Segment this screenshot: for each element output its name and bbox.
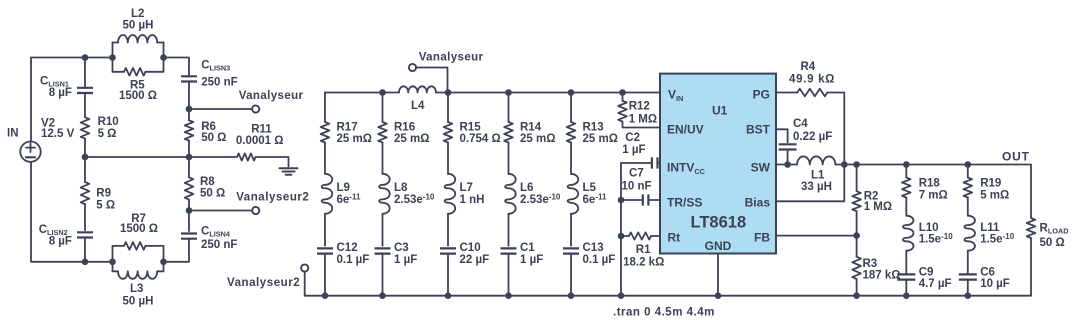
svg-text:250 nF: 250 nF [201, 239, 237, 251]
label R12 [629, 101, 657, 126]
svg-text:25 mΩ: 25 mΩ [394, 133, 429, 145]
inductor L11 [964, 216, 975, 251]
wire: Vanalyseur to ladder top rail [416, 68, 447, 93]
pin label PG [753, 88, 770, 102]
svg-text:8 µF: 8 µF [49, 87, 72, 99]
wire: C2/C7/R1 ground leg [620, 163, 622, 296]
capacitor C10 [440, 248, 456, 295]
resistor R7 with parallel inductor L3 box [113, 242, 164, 279]
wire: L9 to C12 [324, 214, 326, 246]
svg-text:L3: L3 [130, 283, 143, 295]
pin label Bias [745, 196, 771, 210]
svg-text:L4: L4 [411, 100, 425, 112]
svg-text:18.2 kΩ: 18.2 kΩ [623, 257, 664, 269]
label R15 [460, 122, 501, 146]
svg-text:50 Ω: 50 Ω [200, 187, 225, 199]
resistor R16 [378, 122, 387, 143]
svg-text:C12: C12 [337, 242, 358, 254]
pin label VIN [668, 88, 683, 103]
ground [280, 168, 298, 174]
label C9 [919, 266, 952, 290]
svg-text:49.9 kΩ: 49.9 kΩ [789, 73, 835, 85]
label L2 [123, 8, 154, 32]
capacitor C1 [501, 248, 517, 295]
wire: L10 to C9 [905, 251, 907, 275]
svg-text:187 kΩ: 187 kΩ [863, 270, 901, 282]
svg-text:5 Ω: 5 Ω [98, 128, 117, 140]
wire: left input rail and top rail to C_LISN3 [31, 58, 189, 142]
.tran directive [613, 307, 715, 319]
wire: L8 to C3 [382, 214, 384, 246]
wire: L11 to C6 [967, 251, 969, 275]
svg-text:50 µH: 50 µH [123, 20, 154, 32]
label R6 [201, 121, 226, 144]
output rail SW to OUT [836, 165, 1032, 219]
junction dots left section [82, 54, 193, 265]
svg-text:50 Ω: 50 Ω [1040, 237, 1065, 249]
label C13 [583, 242, 616, 266]
svg-text:1500 Ω: 1500 Ω [120, 223, 158, 235]
svg-text:R3: R3 [863, 258, 878, 270]
wire: R12 to EN/UV pin [623, 122, 661, 128]
junction dots output rail [784, 161, 971, 239]
svg-text:L7: L7 [460, 182, 473, 194]
svg-text:0.22 µF: 0.22 µF [793, 131, 832, 143]
svg-text:L8: L8 [394, 182, 408, 194]
wire: R17 column top stub [324, 93, 326, 123]
inductor L2 with parallel resistor R5 box [113, 35, 164, 76]
wire: R8 to CLISN4 [188, 200, 190, 232]
op-amp/regulator U1 LT8618 body [660, 74, 776, 254]
label R9 [96, 188, 115, 212]
svg-text:L1: L1 [811, 169, 825, 181]
wire: R9 to CLISN2 [84, 204, 86, 230]
svg-text:0.0001 Ω: 0.0001 Ω [236, 135, 284, 147]
wire: R16 column top stub [382, 93, 384, 123]
wire: R3 to ground rail [856, 279, 858, 296]
wire: node to Vanalyseur terminal [189, 108, 252, 110]
capacitor CLISN1 [77, 58, 93, 118]
capacitor C12 [317, 248, 333, 295]
junction dots input leg [618, 89, 626, 239]
svg-text:GND: GND [705, 239, 732, 253]
label V2 value [41, 117, 75, 140]
wire: R16 to L8 [382, 143, 384, 174]
wire: R18 to L10 [905, 198, 907, 216]
wire: R19 to L11 [967, 198, 969, 216]
label R10 [98, 116, 119, 140]
svg-text:Bias: Bias [745, 196, 771, 210]
terminal Vanalyseur (ladder input) [409, 64, 416, 71]
svg-text:L6: L6 [520, 182, 533, 194]
svg-text:1 MΩ: 1 MΩ [629, 114, 657, 126]
label R2 [864, 190, 892, 213]
label R19 [980, 178, 1009, 202]
ladder bottom rail [305, 295, 1031, 297]
svg-text:1 µF: 1 µF [394, 254, 417, 266]
label R17 [337, 122, 372, 146]
svg-text:L11: L11 [980, 222, 1000, 234]
svg-text:C1: C1 [520, 242, 535, 254]
svg-text:1 µF: 1 µF [622, 144, 645, 156]
svg-text:L10: L10 [919, 222, 939, 234]
svg-text:R18: R18 [919, 178, 941, 190]
resistor R12 [618, 93, 627, 122]
svg-text:25 mΩ: 25 mΩ [520, 133, 555, 145]
label L9 [337, 182, 361, 206]
svg-text:R13: R13 [583, 122, 604, 134]
inductor L6 [505, 174, 516, 214]
svg-text:R11: R11 [251, 124, 272, 136]
svg-text:5 Ω: 5 Ω [96, 199, 115, 211]
svg-text:C6: C6 [980, 266, 995, 278]
label L1 [801, 169, 832, 193]
resistor R8 [185, 177, 194, 199]
label C10 [460, 242, 490, 266]
label R18 [919, 178, 948, 202]
label L3 [123, 283, 154, 307]
capacitor C3 [375, 248, 391, 295]
svg-text:SW: SW [751, 161, 771, 175]
label U1 [712, 104, 728, 118]
label R4 [789, 61, 835, 86]
wire: SW pin to L1 [776, 164, 797, 166]
svg-text:1 MΩ: 1 MΩ [864, 201, 892, 213]
svg-text:5 mΩ: 5 mΩ [980, 189, 1009, 201]
svg-text:25 mΩ: 25 mΩ [583, 133, 618, 145]
inductor L5 [568, 174, 579, 214]
label R5 [119, 79, 157, 102]
label R7 [120, 213, 158, 235]
resistor RLOAD [1027, 218, 1036, 238]
label L10 [919, 222, 954, 246]
svg-text:Vanalyseur: Vanalyseur [239, 90, 304, 102]
capacitor CLISN4 [181, 234, 197, 239]
resistor R10 [81, 117, 90, 138]
label Vanalyseur (ladder) [419, 52, 484, 64]
junction dots ladder top rail [379, 89, 574, 96]
wire: R18 top stub [905, 165, 907, 178]
wire: L7 to C10 [447, 214, 449, 246]
label C1 [520, 242, 543, 266]
capacitor CLISN3 [181, 76, 197, 120]
wire: Bias pin to rail [776, 165, 844, 202]
label LT8618 [691, 214, 747, 232]
svg-text:TR/SS: TR/SS [667, 196, 702, 210]
inductor L10 [903, 216, 914, 251]
label R1 [623, 244, 664, 269]
svg-text:8 µF: 8 µF [49, 235, 72, 247]
wire: GND pin to ground rail [717, 254, 719, 296]
wire: R2 to FB node [856, 211, 858, 235]
svg-text:4.7 µF: 4.7 µF [919, 278, 952, 290]
resistor R6 [185, 120, 194, 140]
svg-text:C7: C7 [629, 168, 644, 180]
resistor R13 [567, 122, 576, 143]
resistor R4 [797, 89, 827, 97]
svg-text:L2: L2 [131, 8, 144, 20]
wire: R4 down to SW rail [827, 93, 844, 165]
svg-text:PG: PG [753, 88, 770, 102]
resistor R11 [189, 153, 289, 166]
capacitor C2 [621, 157, 660, 168]
label C12 [337, 242, 370, 266]
wire: C4 to SW rail [787, 150, 789, 165]
label C4 [793, 118, 832, 143]
svg-text:0.1 µF: 0.1 µF [337, 254, 370, 266]
wire: BST pin to C4 [776, 129, 788, 142]
label RLOAD [1040, 223, 1069, 249]
svg-text:1 nH: 1 nH [460, 194, 485, 206]
svg-text:Vanalyseur2: Vanalyseur2 [227, 277, 300, 289]
wire: PG pin to R4 [776, 92, 797, 94]
svg-text:C2: C2 [625, 132, 640, 144]
junction dots ladder bottom rail [322, 292, 971, 299]
label Vanalyseur2 (left) [236, 192, 309, 204]
capacitor C7 [621, 194, 660, 205]
svg-text:1500 Ω: 1500 Ω [119, 90, 157, 102]
svg-text:25 mΩ: 25 mΩ [337, 133, 372, 145]
label R13 [583, 122, 618, 146]
svg-text:R17: R17 [337, 122, 358, 134]
svg-text:R12: R12 [629, 101, 650, 113]
svg-text:Vanalyseur2: Vanalyseur2 [236, 192, 309, 204]
label CLISN2 [39, 224, 72, 247]
svg-text:EN/UV: EN/UV [667, 123, 704, 137]
label L6 [520, 182, 561, 206]
wire: R14 to L6 [508, 143, 510, 174]
wire: R15 column top stub [447, 93, 449, 123]
svg-text:FB: FB [754, 231, 770, 245]
svg-text:LT8618: LT8618 [691, 214, 747, 232]
pin label SW [751, 161, 771, 175]
svg-text:R4: R4 [801, 61, 816, 73]
svg-text:Vanalyseur: Vanalyseur [419, 52, 484, 64]
inductor L8 [379, 174, 390, 214]
svg-text:U1: U1 [712, 104, 728, 118]
svg-text:OUT: OUT [1002, 149, 1030, 163]
terminal Vanalyseur (left) [252, 105, 259, 112]
capacitor C13 [563, 248, 579, 295]
svg-text:R19: R19 [980, 178, 1001, 190]
label C3 [394, 242, 417, 266]
svg-text:C9: C9 [919, 266, 934, 278]
label L7 [460, 182, 485, 206]
resistor R17 [321, 122, 330, 143]
wire: FB pin to divider [776, 235, 857, 237]
wire: R19 top stub [967, 165, 969, 178]
label Vanalyseur2 (ladder) [227, 277, 300, 289]
svg-text:C3: C3 [394, 242, 409, 254]
inductor L1 [797, 156, 835, 164]
svg-text:L9: L9 [337, 182, 350, 194]
capacitor C6 [959, 274, 977, 295]
pin label GND [705, 239, 732, 253]
resistor R19 [964, 178, 973, 198]
capacitor C9 [897, 274, 915, 295]
svg-text:Rt: Rt [668, 231, 681, 245]
capacitor C4 [779, 144, 797, 149]
terminal Vanalyseur2 (left) [252, 207, 259, 214]
svg-text:C10: C10 [460, 242, 481, 254]
middle rail wire [85, 156, 189, 158]
wire: R10 to R9 [84, 139, 86, 182]
wire: L6 to C1 [508, 214, 510, 246]
pin label INTVCC [667, 161, 706, 176]
wire: RLOAD to ground rail [1030, 238, 1032, 296]
capacitor CLISN2 [77, 232, 93, 261]
svg-text:33 µH: 33 µH [801, 181, 832, 193]
wire: R13 to L5 [570, 143, 572, 174]
svg-text:0.1 µF: 0.1 µF [583, 254, 616, 266]
wire: R13 column top stub [570, 93, 572, 123]
pin label EN/UV [667, 123, 704, 137]
wire: R6 to R8 node [188, 141, 190, 178]
wire: R14 column top stub [508, 93, 510, 123]
resistor R18 [902, 178, 911, 198]
svg-text:250 nF: 250 nF [201, 76, 237, 88]
resistor R15 [444, 122, 453, 143]
pin label FB [754, 231, 770, 245]
label R16 [394, 122, 429, 146]
label IN [7, 127, 19, 139]
svg-text:50 Ω: 50 Ω [201, 132, 226, 144]
wire: node to Vanalyseur2 terminal [189, 210, 252, 212]
svg-text:.tran 0 4.5m 4.4m: .tran 0 4.5m 4.4m [613, 307, 715, 319]
wire: R15 to L7 [447, 143, 449, 174]
inductor L9 [322, 174, 333, 214]
label OUT [1002, 149, 1030, 163]
svg-text:22 µF: 22 µF [460, 254, 490, 266]
label L11 [980, 222, 1015, 246]
ladder top rail with inductor L4 [325, 86, 660, 92]
wire: L5 to C13 [570, 214, 572, 246]
label R8 [200, 176, 225, 199]
svg-text:12.5 V: 12.5 V [41, 128, 75, 140]
inductor L7 [445, 174, 456, 214]
label CLISN1 [40, 75, 72, 99]
svg-text:R10: R10 [98, 116, 119, 128]
svg-text:R9: R9 [96, 188, 111, 200]
terminal Vanalyseur2 (ladder) [301, 264, 308, 271]
svg-text:R14: R14 [520, 122, 542, 134]
svg-text:1 µF: 1 µF [520, 254, 543, 266]
pin label Rt [668, 231, 681, 245]
label CLISN3 [201, 60, 237, 89]
wire: Vanalyseur2 stub [304, 272, 306, 296]
svg-text:R1: R1 [636, 244, 651, 256]
label L4 [411, 100, 425, 112]
label L5 [583, 182, 607, 206]
svg-text:C13: C13 [583, 242, 604, 254]
label CLISN4 [201, 225, 237, 251]
pin label BST [746, 123, 771, 137]
svg-text:50 µH: 50 µH [123, 295, 154, 307]
wire: left rail bottom and bottom rail to C_LISN4 [31, 162, 189, 262]
label R11 [236, 124, 284, 147]
resistor R2 [852, 165, 861, 212]
label L8 [394, 182, 435, 206]
svg-text:7 mΩ: 7 mΩ [919, 189, 948, 201]
voltage source V2 [20, 142, 40, 162]
resistor R3 [852, 236, 861, 279]
label C2 [622, 132, 645, 156]
label C6 [980, 266, 1010, 290]
svg-text:BST: BST [746, 123, 771, 137]
label R14 [520, 122, 555, 146]
pin label TR/SS [667, 196, 702, 210]
svg-text:R16: R16 [394, 122, 415, 134]
svg-text:10 nF: 10 nF [622, 181, 652, 193]
svg-text:10 µF: 10 µF [980, 278, 1010, 290]
label C7 [622, 168, 652, 193]
resistor R1 [621, 232, 660, 239]
svg-text:R8: R8 [200, 176, 215, 188]
resistor R9 [81, 182, 90, 204]
label Vanalyseur (left) [239, 90, 304, 102]
resistor R14 [504, 122, 513, 143]
wire: R17 to L9 [324, 143, 326, 174]
svg-text:C4: C4 [793, 118, 808, 130]
svg-text:IN: IN [7, 127, 19, 139]
svg-text:0.754 Ω: 0.754 Ω [460, 133, 501, 145]
label R3 [863, 258, 901, 282]
svg-text:R15: R15 [460, 122, 482, 134]
